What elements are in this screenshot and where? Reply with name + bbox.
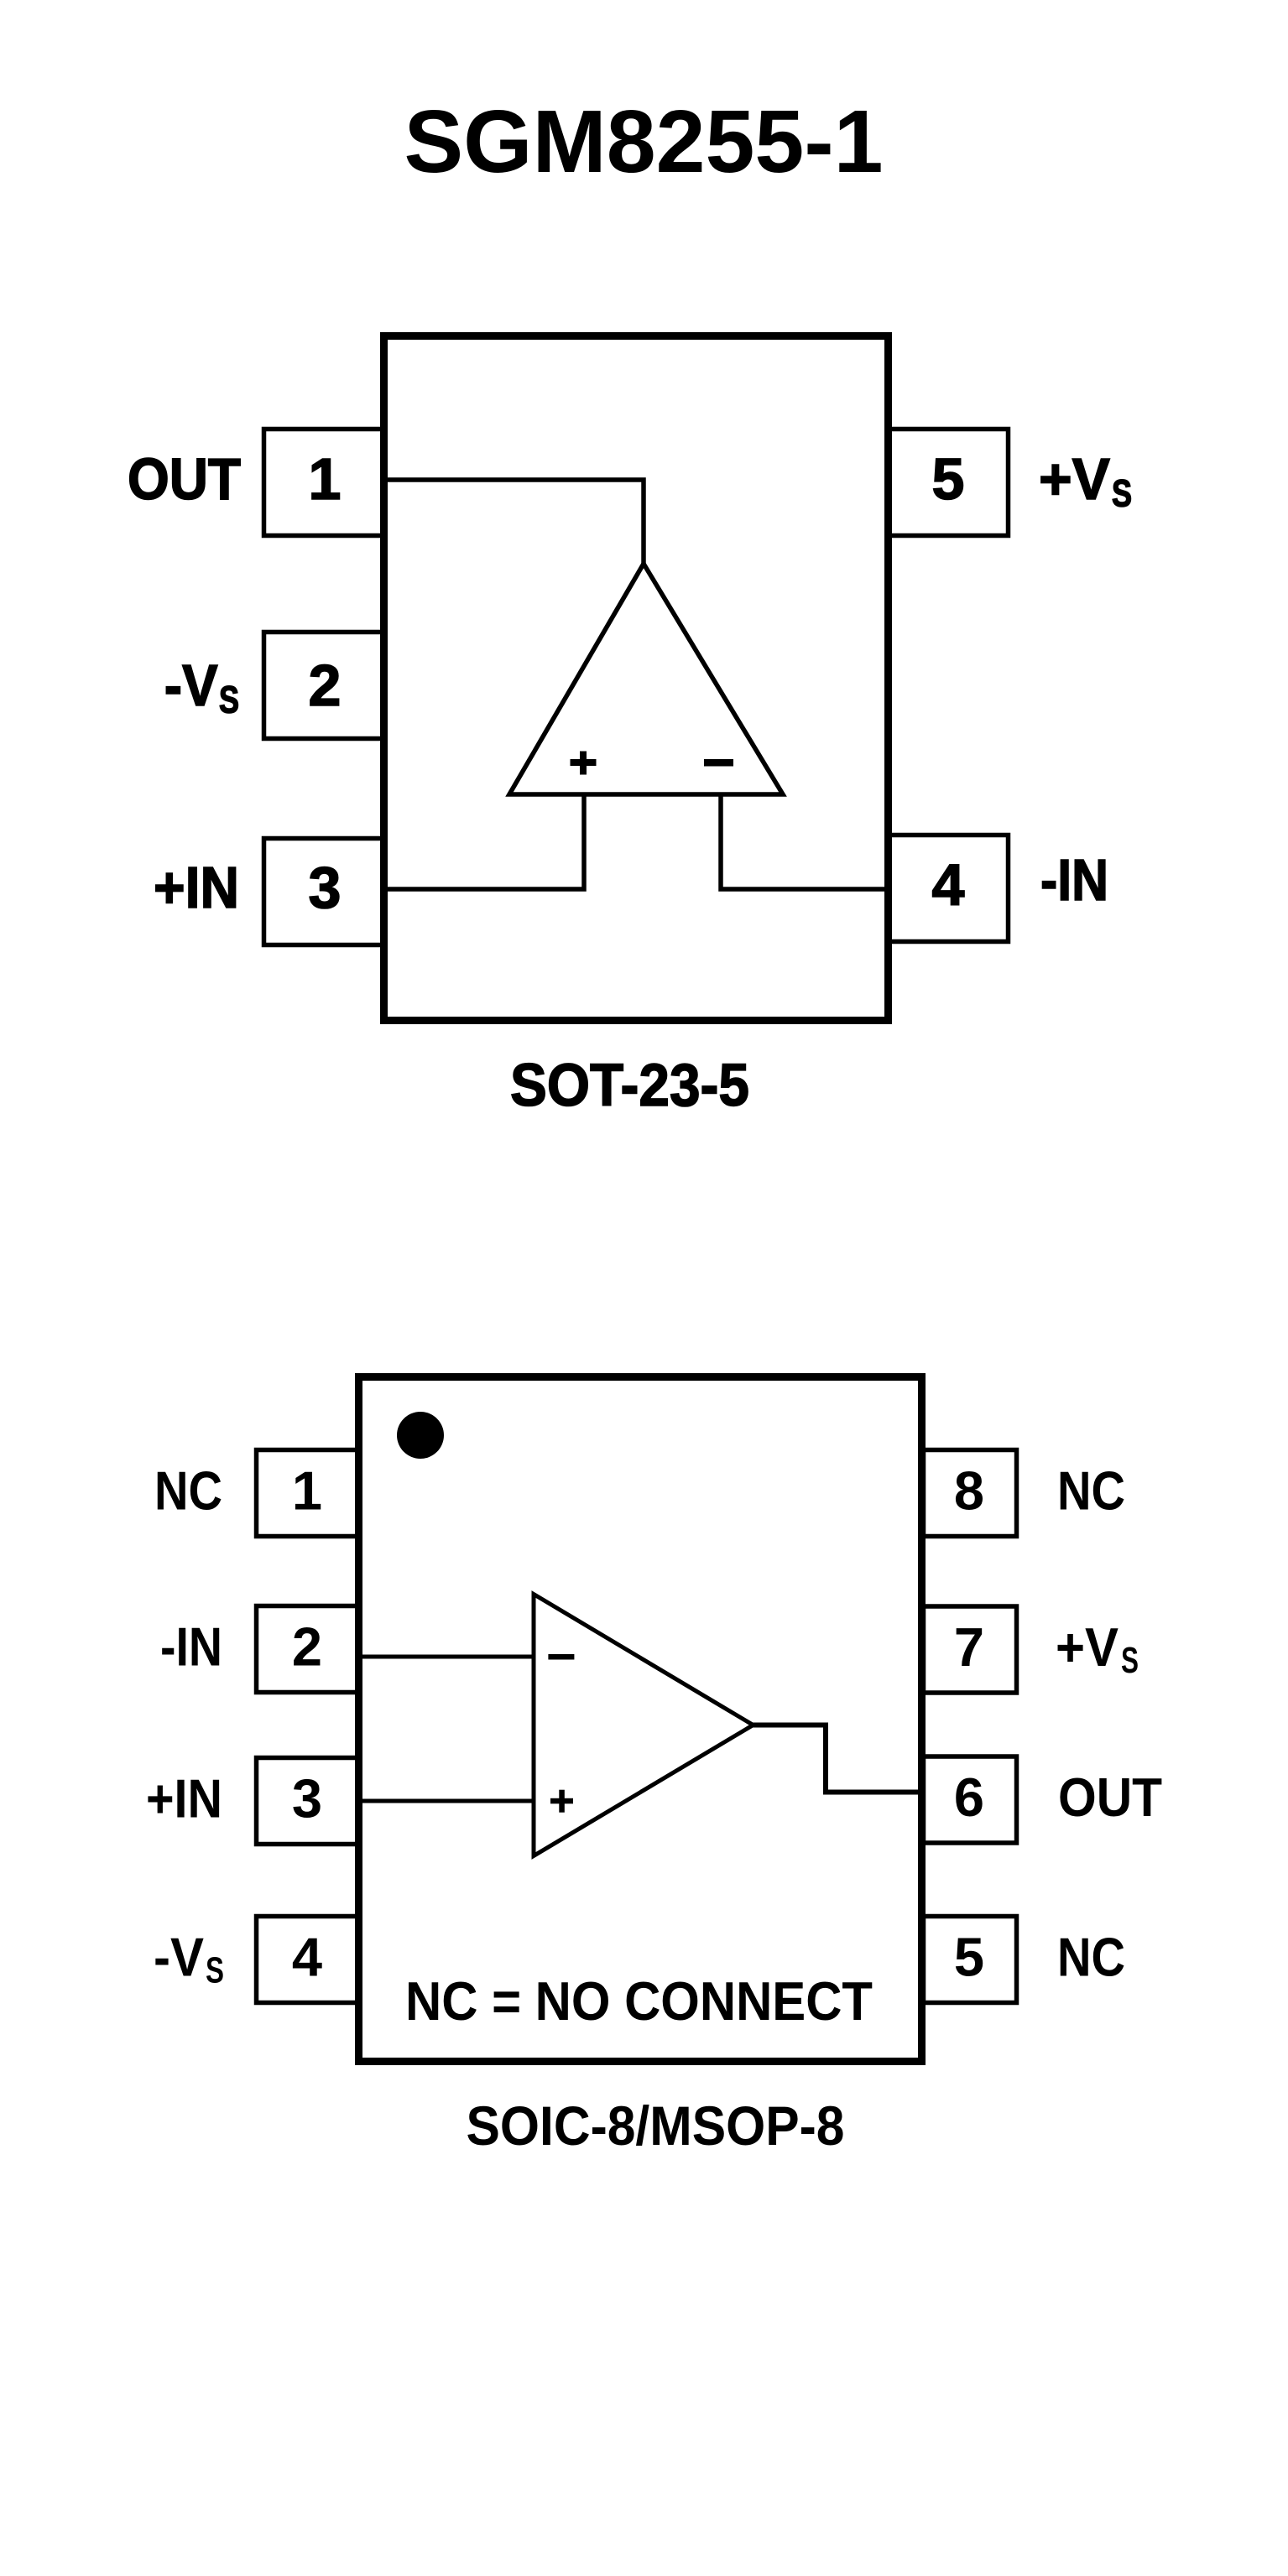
svg-text:SOT-23-5: SOT-23-5 [510,1053,749,1119]
pin 5 box [924,1917,1017,2003]
op-amp A2 plus sign [550,1790,573,1813]
op-amp A1 minus sign [704,759,733,767]
svg-text:3: 3 [292,1768,322,1829]
svg-text:NC: NC [1057,1460,1125,1522]
pin 6 box [924,1756,1017,1843]
svg-text:SOIC-8/MSOP-8: SOIC-8/MSOP-8 [467,2095,845,2157]
svg-text:S: S [1112,472,1132,515]
svg-text:+IN: +IN [154,855,239,920]
svg-text:+IN: +IN [146,1768,222,1829]
svg-text:7: 7 [954,1616,984,1678]
pin 4 box [887,835,1009,942]
svg-text:-V: -V [154,1927,204,1988]
pin 2 box [264,632,386,739]
op-amp A2 minus sign [548,1654,574,1660]
wire pin 3 to op-amp +input [358,1799,537,1803]
op-amp A2 triangle [534,1595,754,1856]
svg-text:5: 5 [932,446,965,512]
svg-text:NC: NC [1057,1927,1125,1988]
wire op-amp +input to pin 3 [382,793,584,889]
svg-text:S: S [1121,1640,1139,1681]
pin 3 box [264,839,386,945]
pin 3 box [257,1758,361,1845]
svg-text:NC: NC [154,1460,222,1522]
svg-text:4: 4 [932,852,965,918]
pin 1 orientation dot [397,1412,444,1459]
svg-text:S: S [206,1950,224,1991]
pin 4 box [257,1917,361,2003]
pin 5 box [887,429,1009,536]
svg-text:NC = NO CONNECT: NC = NO CONNECT [405,1970,873,2032]
svg-text:6: 6 [954,1767,984,1828]
svg-text:OUT: OUT [1058,1767,1162,1828]
svg-text:3: 3 [309,855,342,920]
svg-text:-IN: -IN [1040,847,1108,913]
svg-text:1: 1 [309,446,342,512]
svg-text:5: 5 [954,1927,984,1988]
pin 7 box [924,1606,1017,1693]
svg-text:+V: +V [1039,446,1110,512]
pin 8 box [924,1450,1017,1537]
pin 2 box [257,1606,361,1693]
wire op-amp -input to pin 4 [721,793,890,889]
IC body SOT-23-5 [384,336,889,1021]
svg-text:S: S [219,679,239,721]
op-amp A1 triangle [509,564,783,794]
svg-text:2: 2 [292,1616,322,1678]
svg-text:SGM8255-1: SGM8255-1 [404,92,884,191]
wire pin 2 to op-amp -input [358,1655,537,1659]
pin 1 box [264,429,386,536]
svg-text:-V: -V [164,653,218,718]
IC body SOIC-8/MSOP-8 [359,1377,922,2062]
svg-text:2: 2 [309,653,342,718]
svg-text:+V: +V [1056,1616,1119,1678]
svg-text:4: 4 [292,1927,322,1988]
wire pin1 OUT to op-amp output [382,480,644,564]
svg-text:OUT: OUT [128,446,241,512]
svg-text:-IN: -IN [160,1616,222,1678]
pin 1 box [257,1450,361,1537]
svg-text:1: 1 [292,1460,322,1522]
wire op-amp output to pin 6 [753,1725,923,1793]
op-amp A1 plus sign [571,752,597,775]
svg-text:8: 8 [954,1460,984,1522]
